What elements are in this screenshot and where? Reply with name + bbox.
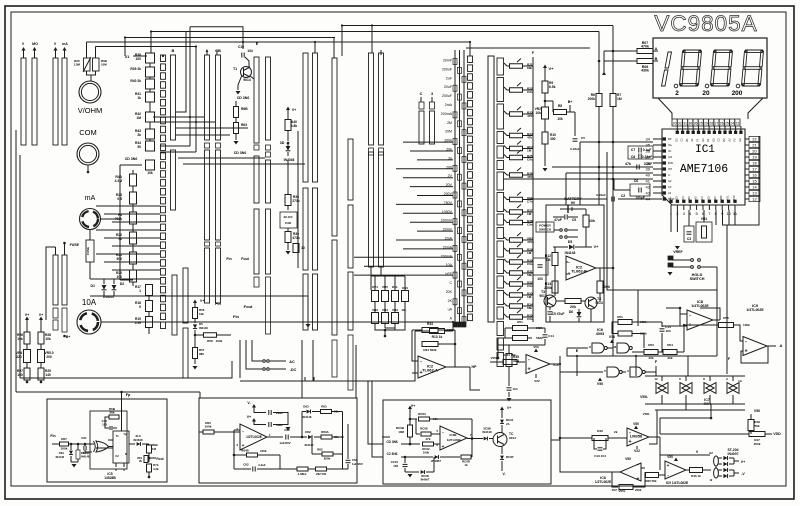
contact strip range A bbox=[453, 59, 457, 65]
svg-text:200k: 200k bbox=[754, 442, 761, 446]
svg-text:C63: C63 bbox=[284, 428, 290, 432]
resistor R13b 10k bbox=[120, 164, 142, 166]
resistor R19 0.99R bbox=[146, 317, 153, 328]
svg-text:12: 12 bbox=[752, 196, 757, 201]
resistor R51 562k bbox=[618, 320, 632, 325]
wire battery out to logic bbox=[600, 267, 613, 269]
svg-text:Fout: Fout bbox=[156, 457, 164, 461]
svg-text:FUSE: FUSE bbox=[86, 247, 90, 255]
svg-text:14528B: 14528B bbox=[104, 476, 116, 480]
label V+ chain bbox=[543, 65, 547, 69]
svg-text:9013: 9013 bbox=[539, 294, 547, 298]
svg-text:C0s: C0s bbox=[527, 90, 533, 94]
resistor R51b 562k bbox=[513, 326, 528, 331]
svg-text:+: + bbox=[667, 463, 670, 468]
svg-text:C62: C62 bbox=[243, 463, 249, 467]
svg-text:V50L: V50L bbox=[643, 412, 650, 416]
diode D62 IN4148 bbox=[302, 436, 307, 438]
svg-text:60k: 60k bbox=[527, 66, 532, 70]
IC1 top pins bbox=[676, 131, 679, 134]
svg-text:R47: R47 bbox=[612, 488, 618, 492]
op-amp IC3 1/2TL062E bbox=[240, 424, 267, 450]
wire mid verticals bbox=[297, 131, 299, 268]
capacitor C15 22uF bbox=[268, 410, 270, 415]
svg-text:15: 15 bbox=[752, 178, 757, 183]
svg-text:V+: V+ bbox=[507, 406, 511, 410]
svg-text:V/OHM: V/OHM bbox=[78, 106, 103, 115]
svg-text:C: C bbox=[449, 281, 452, 285]
ground T1 bbox=[236, 91, 241, 95]
wire fuse down bbox=[89, 262, 91, 279]
nand gate U6B bbox=[617, 343, 629, 353]
svg-text:100: 100 bbox=[116, 275, 122, 279]
svg-text:SWITCH: SWITCH bbox=[539, 228, 551, 232]
svg-text:4.38kJ: 4.38kJ bbox=[298, 472, 307, 476]
svg-text:0.22uF: 0.22uF bbox=[596, 193, 606, 197]
svg-text:25: 25 bbox=[699, 122, 703, 126]
svg-text:1k: 1k bbox=[137, 96, 141, 100]
svg-text:C3: C3 bbox=[668, 185, 672, 189]
svg-text:25: 25 bbox=[725, 122, 729, 126]
potentiometer VR4 220 bbox=[24, 350, 31, 363]
diode D2 IN4007 bbox=[112, 285, 117, 290]
switch wafer bars A2 bbox=[205, 248, 210, 303]
svg-text:9014: 9014 bbox=[243, 78, 251, 82]
svg-text:D3: D3 bbox=[674, 196, 678, 200]
switch wafer bar E2 bbox=[348, 139, 353, 200]
svg-text:56k: 56k bbox=[527, 273, 532, 277]
svg-text:300: 300 bbox=[550, 137, 556, 141]
diode RC0P bbox=[501, 446, 503, 454]
svg-text:562k: 562k bbox=[536, 336, 543, 340]
svg-text:29: 29 bbox=[704, 122, 708, 126]
svg-text:VDD: VDD bbox=[773, 432, 781, 436]
resistor R4A 4.3M bbox=[130, 174, 137, 186]
wire fb loop box2 bbox=[233, 430, 235, 469]
svg-text:20: 20 bbox=[673, 122, 677, 126]
diode D63 IN4148 bbox=[302, 411, 306, 413]
switch wafer bars lower bbox=[172, 275, 177, 335]
svg-text:G1: G1 bbox=[701, 138, 705, 142]
svg-text:R: R bbox=[125, 452, 127, 456]
wire F line bbox=[655, 366, 657, 376]
svg-text:V-: V- bbox=[502, 472, 505, 476]
switch wafer bar F2 bbox=[379, 53, 384, 145]
svg-text:34: 34 bbox=[646, 137, 651, 142]
svg-text:2N40B7: 2N40B7 bbox=[431, 459, 441, 463]
op-amp IC10 LM358-A bbox=[627, 428, 649, 446]
svg-text:D1: D1 bbox=[674, 138, 678, 142]
svg-text:RC0B: RC0B bbox=[421, 474, 428, 478]
capacitor C6 100pF bbox=[630, 184, 650, 196]
svg-text:T1: T1 bbox=[233, 67, 237, 71]
wire battery box bottom bbox=[590, 309, 592, 322]
wire IC pins 8-11 down bbox=[715, 210, 717, 225]
svg-text:D5: D5 bbox=[199, 322, 203, 326]
ground box3 bbox=[408, 474, 413, 478]
capacitor C3 100pF below IC bbox=[684, 226, 694, 242]
wire lm358 out bbox=[649, 436, 660, 438]
svg-text:V22: V22 bbox=[534, 379, 540, 383]
wire left bus 1 bbox=[15, 130, 17, 392]
svg-text:160: 160 bbox=[17, 373, 23, 377]
svg-text:+: + bbox=[628, 439, 631, 445]
svg-text:R63: R63 bbox=[241, 123, 247, 127]
svg-text:G3: G3 bbox=[706, 196, 710, 200]
resistor R48 56k bbox=[750, 414, 752, 419]
svg-text:900: 900 bbox=[116, 257, 122, 261]
svg-text:10A: 10A bbox=[82, 298, 97, 307]
svg-text:D6: D6 bbox=[569, 310, 574, 314]
transistor T4 9014 bbox=[585, 297, 597, 309]
resistor R6B bbox=[234, 107, 239, 118]
svg-text:10k: 10k bbox=[199, 312, 204, 316]
svg-text:C3D: C3D bbox=[285, 221, 292, 225]
wire IC1 pin1 stub bbox=[670, 210, 672, 232]
svg-text:R45 56k: R45 56k bbox=[645, 479, 656, 483]
diode D4 IN4148 bbox=[286, 146, 291, 151]
svg-text:Tp: Tp bbox=[123, 432, 127, 436]
wire top bus 2 bbox=[151, 31, 599, 33]
label V+ diodes bbox=[733, 458, 735, 464]
wire range rows lower stubs bbox=[354, 256, 453, 258]
wire bar top stubs bbox=[206, 50, 208, 55]
svg-text:4.8k: 4.8k bbox=[291, 124, 298, 128]
svg-text:2A: 2A bbox=[506, 422, 510, 426]
resistor R61 bbox=[77, 444, 79, 450]
svg-text:1uF/20V: 1uF/20V bbox=[352, 462, 363, 466]
svg-text:V+: V+ bbox=[292, 108, 296, 112]
svg-text:9: 9 bbox=[696, 450, 698, 454]
wire matrix verticals bbox=[189, 27, 191, 146]
svg-text:X2: X2 bbox=[709, 451, 713, 455]
svg-text:V-: V- bbox=[668, 173, 671, 177]
svg-text:20: 20 bbox=[752, 148, 757, 153]
wire fb IC9 bbox=[741, 346, 768, 363]
resistor R62 820k bbox=[312, 453, 322, 455]
function box 1 bbox=[47, 399, 167, 482]
svg-text:0.22uF: 0.22uF bbox=[570, 147, 580, 151]
wire pin 40 bbox=[503, 178, 653, 180]
svg-text:C2: C2 bbox=[621, 194, 626, 198]
resistor R34 10k bbox=[503, 360, 517, 365]
wire range select lines bbox=[454, 50, 456, 322]
wire IC4 fb bbox=[498, 345, 545, 358]
wire mA bus bbox=[101, 218, 120, 220]
potentiometer VR1 below IC bbox=[696, 222, 712, 242]
svg-text:200: 200 bbox=[46, 355, 52, 359]
capacitor C13A 104 bbox=[507, 387, 512, 389]
switch wafer bar D1 bbox=[303, 53, 308, 182]
svg-text:470k: 470k bbox=[527, 114, 534, 118]
op-amp chip IC1 AME7106 body bbox=[662, 129, 745, 205]
trimmer VR62 bbox=[316, 467, 327, 471]
svg-text:R51: R51 bbox=[617, 315, 623, 319]
wire matrix mesh upper bbox=[153, 116, 204, 118]
svg-text:V50: V50 bbox=[667, 455, 673, 459]
svg-text:17: 17 bbox=[752, 166, 757, 171]
wire right pin bracket bbox=[722, 136, 759, 225]
svg-text:Fout: Fout bbox=[244, 304, 253, 309]
wire top bus 4 bbox=[87, 41, 471, 43]
svg-text:980: 980 bbox=[199, 352, 204, 356]
label VREF bbox=[675, 246, 680, 250]
svg-text:200: 200 bbox=[732, 90, 743, 97]
svg-text:220: 220 bbox=[16, 355, 22, 359]
transistor TC 9014 bbox=[493, 433, 507, 447]
capacitor C16 33uF bbox=[268, 422, 270, 427]
wire pin 39 bbox=[566, 172, 653, 174]
terminal post slot 1 bbox=[21, 58, 26, 145]
svg-text:FUSE: FUSE bbox=[70, 243, 80, 247]
op-amp IC3B 1/2TL062E bbox=[440, 426, 467, 450]
svg-text:IN4048: IN4048 bbox=[284, 158, 295, 162]
resistor R47 200k bbox=[749, 432, 765, 437]
svg-text:1/2TL062E: 1/2TL062E bbox=[595, 480, 612, 484]
op-amp chip IC5 14528B bbox=[113, 431, 129, 463]
svg-text:A2: A2 bbox=[727, 138, 731, 142]
resistor R7 1M bbox=[610, 94, 616, 107]
svg-text:20k: 20k bbox=[570, 305, 576, 309]
svg-text:20M: 20M bbox=[445, 130, 452, 134]
svg-text:R58: R58 bbox=[207, 339, 213, 343]
IC1 bottom pins 1-11 bbox=[670, 200, 673, 203]
svg-text:E1: E1 bbox=[706, 138, 710, 142]
svg-text:IN4148: IN4148 bbox=[81, 455, 90, 459]
svg-text:+: + bbox=[242, 443, 245, 448]
svg-text:V+: V+ bbox=[741, 460, 745, 464]
contact strip range B bbox=[468, 56, 473, 63]
svg-text:TL062-A: TL062-A bbox=[422, 368, 438, 373]
resistor R38 100 bbox=[146, 53, 155, 63]
svg-text:3D4: 3D4 bbox=[513, 359, 519, 363]
svg-text:10k: 10k bbox=[17, 337, 23, 341]
svg-text:Fin: Fin bbox=[50, 434, 55, 438]
svg-text:mA: mA bbox=[62, 42, 68, 46]
resistor R6 200k bbox=[596, 94, 602, 107]
wire IC4 out down bbox=[560, 364, 603, 372]
resistor R55 100k bbox=[719, 323, 734, 328]
capacitor C10 bbox=[241, 53, 243, 58]
svg-text:A2: A2 bbox=[668, 191, 672, 195]
svg-text:1M: 1M bbox=[527, 149, 532, 153]
svg-text:22: 22 bbox=[752, 136, 757, 141]
wire top bus 5 bbox=[96, 46, 197, 48]
resistor R57b 980 bbox=[193, 348, 198, 359]
svg-text:470k: 470k bbox=[641, 45, 649, 49]
label V+ mid bbox=[286, 107, 290, 111]
ground box1 bbox=[72, 464, 77, 468]
svg-text:C1: C1 bbox=[680, 138, 684, 142]
svg-text:100k: 100k bbox=[216, 339, 223, 343]
svg-text:LM358: LM358 bbox=[630, 434, 643, 439]
wire gates to switches bbox=[567, 347, 588, 349]
svg-text:47k: 47k bbox=[625, 162, 631, 166]
capacitor C5 0.22uF bbox=[574, 112, 576, 136]
svg-text:D63: D63 bbox=[303, 405, 309, 409]
svg-text:R64B: R64B bbox=[241, 449, 249, 453]
svg-text:3: 3 bbox=[627, 369, 629, 373]
capacitor C14 103 bbox=[660, 328, 665, 330]
svg-text:A1: A1 bbox=[690, 138, 694, 142]
svg-text:A: A bbox=[655, 47, 658, 51]
svg-text:V50: V50 bbox=[633, 422, 639, 426]
resistor R34 562k bbox=[422, 342, 438, 347]
varistor RV1 PTC bbox=[84, 58, 91, 71]
svg-text:1/2TL062E: 1/2TL062E bbox=[246, 435, 262, 439]
svg-text:26: 26 bbox=[694, 122, 698, 126]
svg-text:INT: INT bbox=[668, 167, 673, 171]
wire E2 line bbox=[635, 356, 637, 376]
wire hold switch down bbox=[716, 267, 718, 356]
svg-text:1.5M: 1.5M bbox=[73, 63, 80, 67]
ground mid bbox=[234, 141, 239, 145]
trimmer VR1 2k bbox=[144, 456, 148, 463]
svg-text:2: 2 bbox=[675, 90, 679, 97]
capacitor C63 1uF/20V bbox=[267, 436, 283, 438]
svg-text:100k: 100k bbox=[423, 451, 430, 455]
resistor R15 20k bbox=[565, 299, 581, 304]
svg-text:R62: R62 bbox=[317, 448, 323, 452]
svg-text:1M: 1M bbox=[527, 251, 532, 255]
svg-text:AME7106: AME7106 bbox=[680, 163, 728, 176]
resistor R36 273k bbox=[285, 195, 291, 206]
resistor RC0E 47k bbox=[416, 433, 420, 435]
svg-text:103: 103 bbox=[665, 329, 670, 333]
resistor R6B 1M bbox=[148, 444, 150, 445]
svg-text:6.5k: 6.5k bbox=[549, 85, 556, 89]
transistor T1 9014 bbox=[241, 67, 252, 78]
svg-text:IN4148: IN4148 bbox=[565, 251, 576, 255]
resistor R8 10k bbox=[544, 100, 547, 103]
svg-text:1/4TL062E: 1/4TL062E bbox=[746, 308, 764, 312]
wire 4066 bottom bus bbox=[645, 403, 745, 405]
wire slots top bbox=[55, 247, 57, 255]
svg-text:21: 21 bbox=[752, 142, 757, 147]
svg-text:200k: 200k bbox=[635, 488, 642, 492]
terminal post slot 6 bbox=[62, 255, 67, 305]
terminal post slot 2 bbox=[32, 58, 37, 145]
wire range row stubs left bbox=[403, 141, 453, 143]
resistor R57 200k bbox=[60, 442, 69, 446]
resistor R26 10k bbox=[26, 320, 28, 332]
svg-text:24: 24 bbox=[730, 122, 734, 126]
svg-text:100k: 100k bbox=[743, 323, 750, 327]
svg-text:16: 16 bbox=[752, 172, 757, 177]
svg-text:1k: 1k bbox=[464, 463, 468, 467]
svg-text:C9 47uF: C9 47uF bbox=[552, 312, 565, 316]
resistor R39 8.2k bbox=[146, 67, 155, 77]
analog switch S3 bbox=[704, 383, 714, 394]
wire F2 line bbox=[726, 330, 728, 374]
capacitor C2 0.47uF bbox=[530, 198, 607, 200]
resistor R38b 10 bbox=[293, 244, 299, 253]
wire diode network bbox=[301, 412, 303, 438]
svg-text:32: 32 bbox=[678, 122, 682, 126]
svg-text:20k: 20k bbox=[648, 356, 653, 360]
resistor R68 430k bbox=[637, 59, 653, 64]
capacitor CC01 103 bbox=[404, 457, 406, 463]
svg-text:R34 562k: R34 562k bbox=[423, 348, 437, 352]
svg-text:100k: 100k bbox=[602, 285, 610, 289]
svg-text:B3: B3 bbox=[687, 196, 691, 200]
resistor R45 56k bbox=[641, 467, 645, 469]
label V+ R56 chain bbox=[193, 300, 197, 304]
svg-text:R8: R8 bbox=[558, 104, 562, 108]
svg-text:5: 5 bbox=[604, 369, 606, 373]
wire long vertical to box3 bbox=[355, 345, 357, 398]
resistor RC0R 1k bbox=[461, 455, 471, 459]
wire box3 to logic bbox=[551, 439, 560, 441]
svg-text:R53: R53 bbox=[648, 343, 654, 347]
svg-text:RC0E: RC0E bbox=[420, 427, 428, 431]
svg-text:20mF: 20mF bbox=[443, 59, 453, 63]
nand gate U6C bbox=[607, 367, 619, 377]
wire bracket to logic bbox=[637, 290, 639, 326]
svg-text:-: - bbox=[568, 260, 570, 266]
svg-text:C10: C10 bbox=[238, 45, 244, 49]
ground below R10 bbox=[543, 168, 548, 172]
resistor R43 2k bbox=[146, 129, 155, 139]
svg-text:V62 500: V62 500 bbox=[316, 472, 327, 476]
op-amp IC4 TL062-A bbox=[418, 356, 446, 378]
svg-text:C2 3N6: C2 3N6 bbox=[387, 452, 398, 456]
svg-text:0.22uF: 0.22uF bbox=[642, 155, 652, 159]
svg-text:R13 1k: R13 1k bbox=[432, 335, 443, 339]
svg-text:V22: V22 bbox=[634, 449, 640, 453]
svg-text:10k: 10k bbox=[147, 171, 153, 175]
potentiometer VR5 200 bbox=[38, 350, 45, 363]
switch wafer bar C2 bbox=[266, 57, 271, 140]
inductor pad L2 bbox=[714, 468, 719, 478]
svg-text:13: 13 bbox=[752, 190, 757, 195]
wire fb right box3 bbox=[471, 419, 473, 457]
resistor RC02 100k bbox=[423, 442, 434, 446]
svg-text:C2: C2 bbox=[717, 138, 721, 142]
terminal V/OHM bbox=[79, 81, 101, 103]
svg-text:A: A bbox=[780, 343, 783, 348]
svg-text:CD 3N6: CD 3N6 bbox=[125, 157, 138, 161]
svg-text:VR1: VR1 bbox=[701, 217, 708, 221]
wire pads join bbox=[715, 466, 717, 468]
svg-text:9: 9 bbox=[139, 305, 141, 309]
switch contact strip main bbox=[161, 55, 166, 62]
svg-text:D62: D62 bbox=[305, 430, 311, 434]
svg-text:V+: V+ bbox=[25, 313, 29, 317]
wire LCD connector flare left bbox=[658, 98, 672, 119]
wires F bars to network bbox=[370, 267, 372, 290]
svg-text:I2: I2 bbox=[710, 478, 713, 482]
wire B line bbox=[660, 454, 710, 456]
LCD digit 8 (tens) bbox=[710, 50, 732, 86]
svg-text:2mA: 2mA bbox=[445, 103, 453, 107]
wire box2 out bbox=[382, 436, 390, 438]
resistor R52b 562k bbox=[513, 336, 528, 341]
svg-text:1M: 1M bbox=[527, 212, 532, 216]
svg-text:C3: C3 bbox=[687, 237, 691, 241]
analog switch IC7 4066 S1 bbox=[656, 383, 666, 394]
function box 3 bbox=[383, 400, 551, 484]
wire protection join bbox=[87, 71, 96, 75]
wire 10A right bbox=[101, 321, 453, 323]
resistor R27 160 bbox=[24, 368, 30, 380]
wire box3 feeders bbox=[368, 381, 383, 444]
switch POWER SWITCH bbox=[536, 222, 554, 232]
svg-text:D1: D1 bbox=[90, 284, 95, 288]
svg-text:+: + bbox=[527, 366, 530, 372]
svg-text:IN4648: IN4648 bbox=[133, 438, 143, 442]
svg-text:2k: 2k bbox=[614, 430, 618, 434]
